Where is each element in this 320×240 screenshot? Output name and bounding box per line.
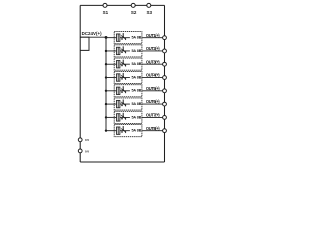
svg-text:OUT6(+): OUT6(+) [146,99,160,104]
wire block 1 to OUT1 [142,37,163,39]
resistor block 4 [117,74,120,81]
resistor block 3 [117,61,120,68]
wire block 7 to OUT7 [142,116,163,118]
wire right vertical bus [164,5,166,162]
transistor block 8 [121,128,123,130]
value label block 4 [130,75,142,79]
terminal OUT3 [163,62,167,66]
svg-text:5A 8B: 5A 8B [131,49,141,53]
svg-text:5A 8B: 5A 8B [131,36,141,40]
wire block 6 to OUT6 [142,103,163,105]
wire bottom [80,161,164,163]
SSR output block 8 dashed box [114,125,142,137]
transistor block 5 [121,89,123,91]
svg-text:OUT3(+): OUT3(+) [146,59,160,64]
SSR output block 3 dashed box [114,58,142,70]
resistor block 8 [117,127,120,134]
wire loop rectangle [80,37,89,50]
wire through block 6 [114,103,142,105]
terminal OUT1 [163,36,167,40]
svg-text:5A 8B: 5A 8B [131,89,141,93]
node bus tap 7 [105,116,107,118]
wire through block 3 [114,63,142,65]
wire block 8 to OUT8 [142,130,163,132]
svg-text:OUT2(+): OUT2(+) [146,46,160,51]
transistor block 2 [121,49,123,51]
value label block 5 [130,89,142,93]
SSR output block 1 dashed box [114,32,142,44]
wire tap 7 [106,116,114,118]
value label block 1 [130,35,142,39]
value label block 8 [130,128,142,132]
node bus tap 4 [105,76,107,78]
wire block 3 to OUT3 [142,63,163,65]
svg-text:OUT8(+): OUT8(+) [146,126,160,131]
terminal 0V-2 [78,149,82,153]
terminal OUT6 [163,102,167,106]
wire tap 5 [106,90,114,92]
SSR output block 2 dashed box [114,45,142,57]
svg-text:OUT1(+): OUT1(+) [146,33,160,38]
node bus tap 6 [105,103,107,105]
SSR output block 5 dashed box [114,85,142,97]
wire top bus [80,4,164,6]
value label block 7 [130,115,142,119]
wire through block 5 [114,90,142,92]
transistor block 4 [121,75,123,77]
svg-text:OUT7(+): OUT7(+) [146,112,160,117]
terminal S3 [147,3,151,7]
terminal OUT7 [163,115,167,119]
wire through block 7 [114,116,142,118]
wire DC24V feed [80,36,106,38]
SSR output block 4 dashed box [114,71,142,83]
svg-text:S2: S2 [131,10,137,15]
node DC24V junction [105,36,108,39]
svg-text:S1: S1 [103,10,109,15]
value label block 6 [130,102,142,106]
wire tap 4 [106,77,114,79]
wire through block 8 [114,130,142,132]
wire tap 1 [106,37,114,39]
svg-text:5A 8B: 5A 8B [131,75,141,79]
wire left vertical [79,5,81,162]
wire block 4 to OUT4 [142,77,163,79]
svg-text:0V: 0V [85,150,90,154]
terminal S2 [131,3,135,7]
svg-text:0V: 0V [85,138,90,142]
wire through block 1 [114,37,142,39]
svg-text:5A 8B: 5A 8B [131,115,141,119]
transistor block 1 [121,35,123,37]
SSR output block 7 dashed box [114,111,142,123]
resistor block 2 [117,47,120,54]
node bus tap 5 [105,90,107,92]
value label block 2 [130,49,142,53]
svg-text:5A 8B: 5A 8B [131,129,141,133]
terminal OUT8 [163,129,167,133]
terminal 0V-1 [78,138,82,142]
resistor block 7 [117,114,120,121]
node bus tap 3 [105,63,107,65]
wire block 5 to OUT5 [142,90,163,92]
svg-text:OUT5(+): OUT5(+) [146,86,160,91]
transistor block 3 [121,62,123,64]
wire inner supply bus [105,37,107,131]
wire tap 2 [106,50,114,52]
svg-text:DC24V(+): DC24V(+) [82,31,103,36]
svg-text:5A 8B: 5A 8B [131,102,141,106]
wire tap 3 [106,63,114,65]
wire tap 8 [106,130,114,132]
terminal OUT2 [163,49,167,53]
node bus tap 8 [105,129,107,131]
value label block 3 [130,62,142,66]
wire tap 6 [106,103,114,105]
resistor block 1 [117,34,120,41]
terminal S1 [103,3,107,7]
wire through block 2 [114,50,142,52]
svg-text:S3: S3 [146,10,152,15]
wire block 2 to OUT2 [142,50,163,52]
resistor block 6 [117,100,120,107]
terminal OUT5 [163,89,167,93]
wire through block 4 [114,77,142,79]
svg-text:5A 8B: 5A 8B [131,62,141,66]
terminal OUT4 [163,76,167,80]
node bus tap 2 [105,50,107,52]
svg-text:OUT4(+): OUT4(+) [146,73,160,78]
SSR output block 6 dashed box [114,98,142,110]
transistor block 7 [121,115,123,117]
transistor block 6 [121,102,123,104]
resistor block 5 [117,87,120,94]
